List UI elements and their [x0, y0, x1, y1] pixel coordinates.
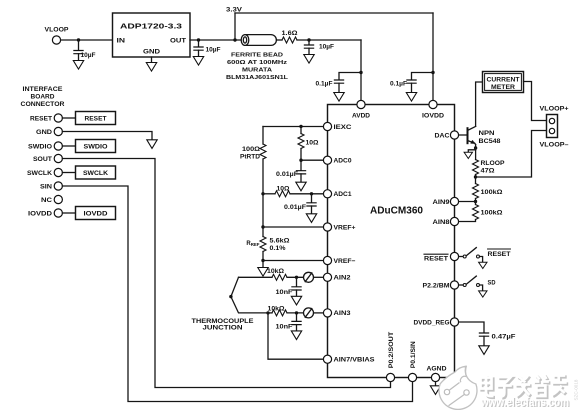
wire switch to ground SD: [480, 285, 483, 291]
wire left rail upper: [262, 127, 264, 237]
svg-text:NC: NC: [41, 197, 52, 204]
junction AIN3/C9: [295, 311, 298, 314]
resistor 10kohm AIN3: [272, 310, 287, 316]
svg-text:0.1µF: 0.1µF: [316, 82, 333, 88]
svg-text:0.01µF: 0.01µF: [276, 172, 298, 178]
pin IEXC: [323, 122, 331, 130]
pin DAC: [450, 131, 458, 139]
watermark text www.elecfans.com: [480, 397, 570, 410]
pin DVDD_REG: [450, 318, 458, 326]
wire C4 to ground: [338, 83, 340, 92]
svg-text:10kΩ: 10kΩ: [268, 307, 285, 313]
IC U1 ADuCM360 outline: [328, 105, 455, 378]
thermocouple junction wires: [231, 277, 268, 313]
svg-text:AVDD: AVDD: [352, 113, 370, 120]
switch S1 RESET: [463, 255, 466, 258]
svg-text:RESET: RESET: [30, 115, 52, 122]
svg-text:5.6kΩ: 5.6kΩ: [270, 239, 290, 245]
pin AIN8: [450, 217, 458, 225]
ground below C8: [291, 296, 301, 305]
wire VLOOP- return: [476, 131, 547, 178]
wire OUT to ferrite bead: [190, 39, 243, 41]
svg-text:JUNCTION: JUNCTION: [203, 326, 243, 332]
svg-text:VLOOP: VLOOP: [45, 27, 70, 34]
svg-text:P2.2/BM: P2.2/BM: [423, 282, 451, 289]
wire to C1: [78, 40, 80, 50]
svg-text:ADuCM360: ADuCM360: [370, 206, 423, 217]
capacitor C6 0.01uF: [296, 171, 305, 174]
svg-text:GND: GND: [36, 129, 52, 136]
wire to C2: [198, 40, 200, 47]
terminal IOVDD: [54, 209, 62, 217]
ground below C9: [291, 331, 301, 340]
svg-text:0.1%: 0.1%: [270, 246, 287, 252]
svg-text:PtRTD: PtRTD: [240, 155, 261, 161]
ground below C6: [296, 182, 306, 191]
svg-text:DAC: DAC: [435, 132, 450, 139]
svg-text:INTERFACE: INTERFACE: [23, 86, 64, 93]
wire C10 to ground: [483, 336, 485, 346]
wire P2.2/BM pin to switch: [459, 284, 464, 286]
resistor 10ohm R10b horizontal: [275, 191, 290, 197]
wire SIN to P0.1/SIN: [62, 186, 412, 402]
svg-text:www.elecfans.com: www.elecfans.com: [480, 397, 569, 409]
capacitor C1 10uF: [74, 51, 83, 54]
svg-text:SIN: SIN: [40, 183, 52, 190]
junction VLOOP/C1: [77, 38, 80, 41]
watermark logo circle: [439, 366, 477, 409]
wire DAC to base: [459, 134, 468, 136]
wire to C9: [296, 313, 298, 321]
wire IEXC line: [263, 126, 323, 128]
connector box SWDIO: [76, 140, 116, 153]
svg-text:BOARD: BOARD: [31, 94, 55, 101]
wire 3.3V rail horizontal to IOVDD: [235, 12, 433, 14]
capacitor C3 10uF: [304, 45, 313, 48]
wire emitter ground hook: [468, 148, 475, 152]
junction RLOOP/VLOOP-: [474, 175, 477, 178]
svg-text:MURATA: MURATA: [242, 68, 272, 74]
svg-text:NPN: NPN: [479, 131, 495, 137]
svg-text:10µF: 10µF: [81, 53, 96, 59]
wire to C6: [300, 160, 302, 170]
wire 1.6ohm to AVDD corner: [297, 39, 361, 41]
svg-text:IN: IN: [117, 38, 126, 45]
ground below AGND: [430, 386, 440, 395]
svg-text:AIN8: AIN8: [433, 219, 450, 226]
connector J1 VLOOP: [547, 115, 558, 138]
regulator U2 ADP1720-3.3 box: [113, 13, 191, 57]
svg-text:OUT: OUT: [170, 38, 186, 45]
wire C7 to ground: [311, 206, 313, 214]
pin VREF-: [323, 256, 331, 264]
wire R to filter AIN2: [287, 276, 303, 278]
svg-text:RESET: RESET: [85, 115, 107, 122]
junction emitter: [474, 146, 477, 149]
wire C5 to ground: [411, 83, 413, 92]
svg-text:10µF: 10µF: [319, 45, 334, 51]
wire AIN9: [459, 201, 476, 203]
svg-text:47Ω: 47Ω: [481, 169, 495, 175]
capacitor C8 10nF: [292, 287, 301, 290]
pin ADC0: [323, 156, 331, 164]
pin VREF+: [323, 223, 331, 231]
wire emitter down: [475, 145, 477, 160]
svg-text:AGND: AGND: [427, 366, 447, 373]
resistor 1.6ohm: [282, 37, 297, 43]
transistor Q1 NPN BC548: [468, 126, 476, 144]
svg-text:DVDD_REG: DVDD_REG: [414, 319, 450, 326]
terminal GND: [54, 127, 62, 135]
resistor RLOOP 47ohm: [473, 160, 479, 175]
resistor 100kohm lower: [473, 205, 479, 220]
svg-text:METER: METER: [491, 85, 516, 91]
svg-text:AIN2: AIN2: [334, 275, 351, 282]
terminal SWCLK: [54, 168, 62, 176]
resistor 100kohm upper: [473, 184, 479, 199]
svg-text:BLM31AJ601SN1L: BLM31AJ601SN1L: [226, 75, 289, 81]
wire DVDD_REG to C10: [459, 322, 484, 333]
terminal RESET: [54, 114, 62, 122]
EMI filter symbol AIN2: [304, 272, 314, 282]
wire RLOOP lead: [475, 175, 477, 178]
svg-text:SOUT: SOUT: [33, 156, 52, 163]
wire 3.3V rail down to IOVDD pin: [432, 13, 434, 100]
wire to C4: [339, 73, 361, 80]
wire to C7: [311, 194, 313, 203]
junction TC/AIN3: [266, 311, 269, 314]
thermocouple junction node: [229, 295, 232, 298]
wire filter to AIN2 pin: [314, 276, 324, 278]
wire rail to R10b: [263, 193, 275, 195]
pin P0.1/SIN: [408, 373, 416, 381]
svg-text:GND: GND: [143, 49, 160, 56]
ground below rail: [258, 268, 268, 277]
terminal NC: [54, 195, 62, 203]
junction AVDD decoupling: [359, 71, 362, 74]
ground below C3: [304, 55, 314, 64]
pin IOVDD: [429, 100, 437, 108]
svg-text:BC548: BC548: [479, 139, 502, 145]
pin AIN2: [323, 273, 331, 281]
junction rail/VREF-: [261, 259, 264, 262]
wire C3 to ground: [308, 48, 310, 54]
svg-text:P0.1/SIN: P0.1/SIN: [410, 341, 417, 368]
switch S2 SD: [463, 284, 466, 287]
junction ADC0/C6: [299, 159, 302, 162]
capacitor C9 10nF: [292, 321, 301, 324]
pin RESET: [450, 252, 458, 260]
wire to C8: [296, 277, 298, 286]
svg-text:10Ω: 10Ω: [277, 186, 290, 192]
watermark text dianzifashaoyou (drawn): [482, 376, 568, 398]
wire 100k lower to AIN8: [459, 202, 476, 222]
connector box IOVDD: [76, 207, 116, 220]
capacitor C5 0.1uF: [407, 80, 416, 83]
wire VLOOP to ADP1720 IN: [61, 39, 113, 41]
wire TC to R AIN2: [239, 276, 273, 278]
wire C6 to ground: [300, 174, 302, 182]
wire C2 to ground: [198, 50, 200, 56]
capacitor C2 10uF: [194, 47, 203, 50]
capacitor C10 0.47uF: [479, 333, 488, 336]
connector box RESET: [76, 112, 116, 125]
svg-text:RLOOP: RLOOP: [481, 161, 505, 167]
svg-text:VREF+: VREF+: [334, 224, 356, 231]
svg-text:SWCLK: SWCLK: [27, 170, 52, 177]
svg-text:ADC0: ADC0: [334, 158, 352, 165]
wire bead to 1.6ohm: [277, 39, 283, 41]
wire SOUT to P0.2/SOUT: [62, 159, 390, 388]
ground below C4: [334, 93, 344, 102]
junction C2: [197, 38, 200, 41]
wire ADC0 line: [301, 159, 323, 161]
ground below C5: [406, 93, 416, 102]
junction rail/VREF+: [261, 225, 264, 228]
wire rail lower: [262, 252, 264, 268]
wire VREF+ line: [263, 226, 323, 228]
svg-text:VREF−: VREF−: [334, 258, 356, 265]
ground below SD switch: [479, 291, 487, 297]
ground below C7: [306, 214, 316, 223]
wire meter to VLOOP+: [524, 82, 547, 121]
pin AIN3: [323, 309, 331, 317]
ground below C1: [73, 61, 83, 70]
overline on RESET switch label: [488, 248, 511, 250]
svg-text:RREF: RREF: [246, 241, 259, 247]
svg-text:600Ω AT 100MHz: 600Ω AT 100MHz: [227, 60, 287, 66]
overline on pin label RESET: [424, 253, 448, 255]
svg-text:SWCLK: SWCLK: [83, 170, 108, 177]
wire SWDIO to box: [62, 145, 75, 147]
wire AGND to ground: [435, 382, 437, 386]
wire GND to ground: [62, 132, 152, 140]
wire collector to current meter: [476, 82, 483, 126]
junction IOVDD decoupling: [431, 71, 434, 74]
wire GND pin to ground: [151, 57, 153, 63]
svg-text:100kΩ: 100kΩ: [481, 190, 503, 196]
resistor RREF 5.6kohm vertical: [260, 237, 266, 252]
resistor RTD 100ohm PtRTD vertical: [260, 144, 266, 159]
wire to AIN7/VBIAS: [268, 313, 323, 359]
svg-text:THERMOCOUPLE: THERMOCOUPLE: [192, 319, 254, 325]
terminal SOUT: [54, 154, 62, 162]
svg-text:RESET: RESET: [488, 252, 511, 258]
svg-text:VLOOP+: VLOOP+: [540, 106, 569, 113]
wire C9 to ground: [296, 325, 298, 331]
svg-text:ADC1: ADC1: [334, 191, 352, 198]
svg-text:AIN7/VBIAS: AIN7/VBIAS: [334, 357, 376, 364]
svg-text:IOVDD: IOVDD: [422, 113, 444, 120]
junction C3: [307, 38, 310, 41]
svg-text:P0.2/SOUT: P0.2/SOUT: [388, 332, 395, 369]
wire C1 to ground: [78, 54, 80, 61]
svg-text:SWDIO: SWDIO: [84, 143, 108, 150]
wire R10b to ADC1: [290, 193, 323, 195]
wire SWCLK to box: [62, 172, 75, 174]
wire filter to AIN3 pin: [314, 312, 324, 314]
wire TC to R AIN3: [268, 312, 272, 314]
svg-text:0.47µF: 0.47µF: [492, 335, 516, 341]
wire 100k upper leads: [475, 177, 477, 202]
svg-text:100Ω: 100Ω: [242, 147, 260, 153]
svg-text:SD: SD: [488, 281, 497, 287]
junction AIN9: [474, 200, 477, 203]
capacitor C7 0.01uF: [307, 203, 316, 206]
junction 3.3V rail tap: [233, 38, 236, 41]
pin P2.2/BM: [450, 281, 458, 289]
connector box SWCLK: [76, 166, 116, 179]
junction ADC1/C7: [310, 192, 313, 195]
wire IOVDD to box: [62, 212, 75, 214]
ground below C2: [193, 57, 203, 66]
current meter box: [483, 72, 524, 93]
junction AIN2/C8: [295, 276, 298, 279]
svg-text:10nF: 10nF: [276, 325, 293, 331]
svg-text:0.1µF: 0.1µF: [390, 82, 407, 88]
svg-text:SWDIO: SWDIO: [28, 143, 52, 150]
svg-text:10Ω: 10Ω: [306, 141, 319, 147]
svg-text:AIN3: AIN3: [334, 310, 351, 317]
svg-text:IOVDD: IOVDD: [28, 210, 52, 217]
pin AIN7/VBIAS: [323, 355, 331, 363]
ground for GND terminal: [147, 140, 157, 149]
svg-text:0.01µF: 0.01µF: [284, 205, 306, 211]
pin ADC1: [323, 190, 331, 198]
svg-text:CURRENT: CURRENT: [487, 78, 520, 84]
ground below RESET switch: [479, 262, 487, 268]
pin AVDD: [357, 100, 365, 108]
wire RESET to box: [62, 117, 75, 119]
ground at emitter: [464, 152, 472, 158]
svg-text:VLOOP–: VLOOP–: [540, 142, 569, 149]
junction IEXC/R10a: [299, 125, 302, 128]
pin P0.2/SOUT: [386, 373, 394, 381]
capacitor C4 0.1uF: [334, 80, 343, 83]
wire C8 to ground: [296, 290, 298, 296]
svg-text:CONNECTOR: CONNECTOR: [21, 101, 65, 108]
wire switch to ground RESET: [480, 257, 483, 263]
wire R10a leads: [300, 127, 302, 161]
EMI filter symbol AIN3: [304, 308, 314, 318]
junction rail/ADC1: [261, 192, 264, 195]
svg-text:10kΩ: 10kΩ: [267, 269, 284, 275]
terminal SIN: [54, 182, 62, 190]
ferrite bead FB1 body: [241, 35, 276, 46]
svg-text:IOVDD: IOVDD: [84, 210, 108, 217]
svg-text:FERRITE BEAD: FERRITE BEAD: [231, 53, 283, 59]
svg-text:ADP1720-3.3: ADP1720-3.3: [120, 22, 182, 31]
ground below C10: [479, 346, 489, 355]
terminal VLOOP: [52, 36, 60, 44]
terminal SWDIO: [54, 142, 62, 150]
wire R to filter AIN3: [287, 312, 303, 314]
wire 3.3V rail vertical: [234, 13, 236, 40]
svg-text:IEXC: IEXC: [334, 124, 352, 131]
svg-text:RESET: RESET: [424, 255, 448, 262]
resistor 10ohm R10a vertical: [298, 134, 304, 149]
resistor 10kohm AIN2: [272, 274, 287, 280]
svg-text:SZC-0018: SZC-0018: [574, 379, 579, 400]
ground below ADP1720: [146, 63, 156, 72]
pin AGND: [431, 373, 439, 381]
svg-text:10nF: 10nF: [276, 290, 293, 296]
wire down to AVDD pin: [360, 40, 362, 100]
pin AIN9: [450, 197, 458, 205]
svg-text:100kΩ: 100kΩ: [481, 211, 503, 217]
wire to C3: [308, 40, 310, 45]
wire to C5: [412, 73, 434, 80]
svg-text:10µF: 10µF: [206, 48, 221, 54]
wire VREF- line: [263, 260, 323, 262]
wire RESET pin to switch: [459, 256, 464, 258]
svg-text:AIN9: AIN9: [433, 199, 450, 206]
